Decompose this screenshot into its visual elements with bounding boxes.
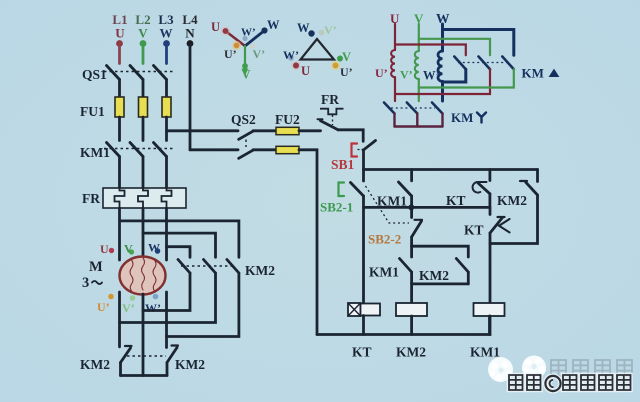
svg-text:3: 3: [82, 275, 89, 291]
SB2-2 tick: [415, 219, 423, 221]
wire control line2 from N: [190, 148, 238, 151]
wire tap W to KM2 delta contact 1: [167, 247, 191, 258]
wire delta contact 2 to U': [395, 69, 490, 94]
watermark dark text 头条@技成培训: [509, 375, 631, 391]
wire W' motor down: [165, 292, 168, 348]
star diagram dot V: [242, 63, 248, 69]
KT off-delay arc: [499, 219, 510, 232]
svg-text:FR: FR: [82, 191, 100, 206]
KM2 delta contact 1 blade: [178, 260, 190, 274]
wire U FU1 to KM1: [118, 117, 121, 141]
KM2 star contact right lower wire: [166, 363, 169, 376]
wire W line bottom: [441, 81, 444, 101]
wire U line bottom: [394, 77, 396, 101]
KM1 main pole 1 blade: [107, 143, 120, 157]
KM2 delta contact 2 blade: [204, 260, 216, 274]
svg-text:W: W: [160, 26, 173, 41]
wire U line top: [394, 24, 396, 50]
wire FR contact to SB1: [338, 130, 363, 142]
KM star contact 1 lower wire: [393, 114, 395, 127]
star diagram arm U: [226, 31, 246, 46]
KM star contact 2 blade: [407, 103, 418, 114]
KM star linkage dashed: [391, 107, 435, 109]
star diagram dot W': [242, 36, 247, 41]
svg-text:W: W: [267, 18, 280, 32]
wire N supply down to control row: [189, 45, 192, 150]
FR heater element V: [138, 188, 148, 208]
svg-text:W’: W’: [145, 301, 161, 315]
svg-text:KM1: KM1: [470, 345, 500, 360]
delta diagram dot U': [333, 63, 339, 69]
star diagram halo U': [232, 41, 241, 50]
wire delta contact 3 to V': [419, 69, 514, 87]
KM delta contact 3 blade: [502, 57, 514, 70]
coil U: [391, 50, 395, 77]
svg-text:U’: U’: [97, 300, 110, 314]
FR contact blade: [321, 121, 339, 130]
KM star contact 1 blade: [384, 103, 395, 114]
wire U supply stub: [118, 45, 121, 64]
QS2 linkage dashed: [245, 134, 247, 147]
fuse FU1 phase U: [115, 97, 124, 117]
wire U FR to motor: [118, 208, 121, 260]
KM star contact 2 lower wire: [416, 114, 418, 127]
KT off-delay blade: [490, 218, 503, 234]
svg-text:V’: V’: [324, 23, 337, 37]
KM2 lockout blade: [526, 182, 538, 195]
motor M circle: [120, 257, 166, 295]
KM star contact 3 blade: [432, 103, 443, 114]
svg-text:V’: V’: [400, 68, 413, 82]
motor terminal dot U': [108, 294, 114, 300]
svg-text:KM2: KM2: [80, 357, 110, 372]
terminal dot L3/W: [163, 40, 170, 47]
wire W KM1 to FR: [165, 157, 168, 189]
svg-text:KT: KT: [446, 193, 466, 208]
switch QS1 pole 3 blade: [154, 66, 167, 80]
star diagram dot W: [261, 27, 267, 33]
svg-text:KM2: KM2: [419, 268, 449, 283]
switch QS1 pole 1 blade: [107, 66, 120, 80]
svg-text:U: U: [100, 242, 109, 256]
KM2 star linkage dashed: [127, 355, 166, 357]
svg-text:V: V: [242, 68, 251, 82]
wire KM2 delta contact 3 to W': [167, 273, 239, 337]
KM1 main pole 2 blade: [130, 143, 143, 157]
motor winding squiggle 3: [153, 260, 156, 291]
fuse FU1 phase W: [162, 97, 171, 117]
KM delta triangle symbol: [549, 69, 560, 77]
KM1 seal stub: [410, 246, 413, 257]
svg-text:V’: V’: [253, 47, 266, 61]
watermark flower logo 1: [488, 357, 513, 382]
star diagram arm V: [244, 46, 246, 66]
terminal dot L1/U: [116, 40, 123, 47]
KM delta linkage dashed: [458, 62, 508, 64]
svg-text:KM: KM: [451, 110, 473, 125]
svg-text:M: M: [89, 259, 103, 275]
wire V line top: [418, 24, 420, 51]
wire delta contact 1 to W': [443, 69, 466, 82]
KM star Y symbol: [477, 113, 486, 123]
KM2 star contact left blade: [121, 348, 131, 363]
wire V to delta contact 2: [419, 39, 490, 55]
wire KM2 coil to rail: [410, 316, 413, 335]
svg-text:FU1: FU1: [80, 104, 105, 119]
switch QS1 pole 2 blade: [130, 66, 143, 80]
svg-text:KT: KT: [352, 345, 372, 360]
star diagram dot V': [250, 43, 256, 49]
wire U to delta contact 1: [395, 45, 466, 56]
KM2 seal lower wire: [467, 272, 470, 284]
svg-text:W’: W’: [241, 27, 256, 39]
star diagram arm W: [245, 31, 265, 47]
wire QS2 to FU2 line1: [253, 129, 276, 132]
SB2-1 blade: [351, 183, 364, 197]
wire V QS1 to FU1: [142, 80, 145, 98]
wire tap U to KM2 delta contact 3: [120, 221, 239, 257]
fuse FU2 line1: [276, 127, 299, 134]
svg-text:FR: FR: [321, 92, 339, 107]
KM2 lockout tick: [520, 180, 527, 182]
wire V FR to motor: [142, 208, 145, 257]
KM1 main pole 3 blade: [154, 143, 167, 157]
svg-text:N: N: [185, 26, 195, 41]
svg-text:KM1: KM1: [369, 265, 399, 280]
star point bar wire: [395, 125, 443, 127]
KM2 star contact left tick: [125, 345, 132, 347]
delta diagram halo U': [331, 61, 340, 70]
parallel pair top wire: [412, 246, 469, 257]
parallel pair bottom wire: [412, 284, 469, 303]
svg-text:QS1: QS1: [82, 67, 107, 82]
SB1 actuator bracket: [352, 144, 358, 157]
KM1 main linkage dashed: [104, 148, 173, 150]
svg-text:KT: KT: [464, 223, 484, 238]
FR contact element symbol: [320, 109, 344, 115]
svg-text:W’: W’: [283, 48, 299, 62]
wire SB2-1 down to rail2: [362, 196, 365, 303]
motor terminal dot W: [155, 248, 161, 254]
wire W FU1 to KM1 with control tap: [165, 117, 168, 141]
wire V line bottom: [418, 79, 420, 101]
KM2 star contact left lower wire: [119, 363, 122, 376]
star point bar: [121, 374, 168, 377]
QS2 pole 1 blade: [239, 131, 253, 139]
KM delta contact 2 blade: [479, 57, 491, 70]
wire W line top: [441, 24, 444, 51]
svg-text:SB2-1: SB2-1: [320, 200, 353, 215]
svg-text:KM: KM: [522, 66, 544, 81]
motor winding squiggle 1: [130, 260, 133, 291]
motor terminal dot V: [129, 249, 134, 254]
KT off-delay lower wire to KM1 coil: [489, 233, 492, 303]
svg-text:V: V: [342, 50, 351, 64]
motor terminal dot V': [130, 295, 136, 301]
QS1 linkage dashed: [104, 71, 173, 73]
wire W to delta contact 3: [443, 30, 514, 56]
star diagram halo U: [221, 27, 230, 36]
star diagram dot U: [223, 28, 229, 34]
KM star contact 3 lower wire: [441, 114, 443, 127]
KM2 lockout stub: [536, 170, 539, 182]
wire V supply stub: [142, 45, 145, 64]
star diagram V arrow: [242, 69, 249, 76]
wire control line1 from W: [167, 129, 239, 132]
KM1 aux stub: [410, 170, 413, 181]
motor winding squiggle 2: [142, 258, 145, 290]
watermark faint text row 技成培训: [551, 360, 632, 376]
svg-text:KM2: KM2: [497, 193, 527, 208]
wire FU2 to FR contact: [299, 129, 321, 132]
wire SB1 down to rail1 corner: [362, 150, 365, 170]
coil KM1 body: [474, 303, 505, 316]
fuse FU1 phase V: [139, 97, 148, 117]
FR heater element U: [115, 188, 125, 208]
KM2 delta linkage dashed: [181, 265, 232, 267]
wire V KM1 to FR: [142, 157, 145, 189]
junction node KM1/rail2: [408, 204, 414, 210]
wire V' motor down to star bar: [142, 294, 145, 376]
delta diagram dot W': [288, 55, 294, 61]
coil W: [438, 51, 443, 81]
SB2-1 actuator bracket: [339, 183, 345, 197]
delta diagram triangle: [301, 39, 335, 60]
KM2 star contact right blade: [167, 348, 177, 363]
wire tap V to KM2 delta contact 2: [143, 233, 216, 257]
KM1 aux blade: [399, 182, 412, 196]
terminal dot L4/N: [187, 40, 194, 47]
wire W supply stub: [165, 45, 168, 64]
wire U' motor down: [118, 292, 121, 347]
svg-text:SB2-2: SB2-2: [368, 232, 401, 247]
svg-text:U: U: [301, 64, 310, 78]
delta diagram halo U: [292, 61, 301, 70]
svg-text:KM1: KM1: [377, 194, 407, 209]
wire V FU1 to KM1: [142, 117, 145, 141]
delta diagram dot V': [319, 30, 325, 36]
KM2 seal blade: [456, 259, 468, 273]
thermal relay FR box: [103, 188, 186, 208]
motor terminal dot U: [109, 248, 114, 253]
svg-text:W: W: [297, 21, 310, 35]
terminal dot L2/V: [140, 40, 147, 47]
FR contact tick: [318, 118, 323, 120]
KT on-delay blade: [478, 183, 490, 194]
SB2-2 lower wire: [410, 237, 413, 246]
delta diagram dot V: [337, 56, 343, 62]
svg-text:U’: U’: [224, 47, 237, 61]
watermark flower logo 2: [522, 356, 546, 380]
KM2 delta contact 3 blade: [227, 260, 239, 274]
SB2-2 upper wire: [410, 207, 413, 217]
svg-text:KM2: KM2: [245, 263, 275, 278]
svg-text:KM2: KM2: [396, 345, 426, 360]
coil KM2 body: [396, 303, 427, 316]
KM2 lockout lower wire to KM1 coil branch: [490, 195, 538, 244]
svg-text:KM2: KM2: [175, 357, 205, 372]
wire W QS1 to FU1: [165, 80, 168, 98]
SB2-2 blade: [412, 221, 422, 237]
FR heater element W: [162, 188, 172, 208]
QS2 pole 2 blade: [239, 150, 253, 158]
rail1 wire: [364, 168, 538, 171]
svg-text:U’: U’: [340, 65, 353, 79]
wire FU2 line2 to left rail riser: [299, 150, 317, 335]
KT off-delay stub: [489, 207, 492, 214]
KM1 seal lower wire: [410, 272, 413, 284]
KT on-delay delay symbol: [473, 182, 487, 193]
wire KM2 delta contact 1 to V': [143, 273, 190, 311]
wire QS2 to FU2 line2: [253, 148, 276, 151]
KM1 seal blade: [400, 259, 412, 273]
watermark halo under dark text: [509, 375, 631, 391]
wire U QS1 to FU1: [118, 80, 121, 98]
bottom return rail: [317, 316, 490, 335]
svg-text:V’: V’: [122, 301, 135, 315]
svg-text:V: V: [138, 26, 148, 41]
wire KM2 delta contact 2 to U': [120, 273, 216, 323]
delta diagram dot W: [308, 30, 314, 36]
coil KT body: [361, 304, 381, 316]
SB2 linkage dashed: [366, 186, 410, 223]
svg-text:W’: W’: [423, 69, 440, 83]
KM2 star contact right tick: [172, 344, 179, 346]
KT on-delay lower wire: [488, 194, 491, 208]
coil KT X stroke 1: [348, 303, 361, 316]
wire W FR to motor: [165, 208, 168, 260]
wire KT coil to rail: [362, 316, 365, 335]
rail2 wire: [364, 206, 490, 209]
svg-text:QS2: QS2: [231, 112, 256, 127]
wire SB1 to SB2-1: [362, 170, 365, 182]
KT on-delay stub: [488, 170, 491, 181]
svg-text:U: U: [211, 20, 220, 34]
svg-text:U’: U’: [375, 66, 388, 80]
star diagram dot U': [234, 43, 240, 49]
delta diagram dot U: [293, 63, 299, 69]
svg-text:KM1: KM1: [80, 145, 110, 160]
coil KT X-box: [348, 303, 361, 316]
KT off-delay tick: [498, 216, 505, 218]
svg-text:FU2: FU2: [275, 112, 300, 127]
svg-text:U: U: [115, 26, 125, 41]
svg-text:SB1: SB1: [331, 157, 355, 172]
SB1 actuator dashed link: [358, 149, 364, 151]
coil KT X stroke 2: [348, 303, 361, 316]
coil V: [415, 51, 419, 79]
wire U KM1 to FR: [118, 157, 121, 189]
FR contact dashed link: [332, 115, 334, 125]
wire KM1 coil to rail: [488, 316, 491, 335]
motor terminal dot W': [153, 294, 159, 300]
KM delta contact 1 blade: [454, 57, 466, 70]
KM1 aux lower wire: [410, 196, 413, 207]
SB1 blade: [363, 141, 375, 151]
fuse FU2 line2: [276, 146, 299, 153]
